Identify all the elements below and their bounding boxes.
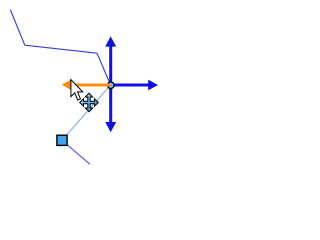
wire segment 5 (blue line from handle to lower right)	[62, 140, 90, 164]
vertex marker (black ring, light-blue fill)	[108, 82, 115, 89]
mouse cursor (white arrow pointer)	[71, 80, 83, 101]
gizmo arrow up (blue)	[105, 36, 116, 85]
gizmo arrow left (orange, highlighted)	[62, 79, 111, 90]
gizmo arrow down (blue)	[105, 85, 116, 132]
gizmo arrow right (blue)	[111, 80, 158, 91]
move icon (four-headed arrow)	[80, 93, 99, 112]
wire segment 1 (blue polyline, upper-left)	[10, 10, 24, 46]
wire segment 3 (blue polyline down to grabbed vertex)	[97, 53, 111, 85]
wire segment 4 (light-blue rubber-band line from vertex to handle)	[62, 85, 111, 140]
wire segment 2 (blue polyline, nearly horizontal)	[25, 45, 97, 53]
handle square (selection handle)	[57, 135, 67, 145]
